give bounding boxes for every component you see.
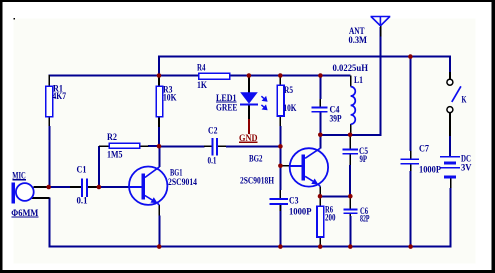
- svg-text:9P: 9P: [360, 154, 368, 164]
- svg-text:10K: 10K: [284, 103, 297, 113]
- svg-text:1000P: 1000P: [419, 164, 441, 174]
- svg-text:BG2: BG2: [249, 154, 263, 164]
- svg-text:C7: C7: [419, 144, 429, 154]
- svg-text:C3: C3: [289, 196, 299, 206]
- svg-text:C2: C2: [208, 126, 218, 136]
- svg-text:GREE: GREE: [216, 102, 238, 112]
- svg-text:10K: 10K: [163, 92, 177, 102]
- svg-text:L1: L1: [354, 75, 363, 85]
- svg-text:BG1: BG1: [170, 167, 183, 177]
- svg-text:0.1: 0.1: [77, 196, 88, 206]
- svg-text:2SC9014: 2SC9014: [168, 177, 197, 187]
- svg-text:0.0225uH: 0.0225uH: [333, 63, 369, 73]
- svg-text:GND: GND: [239, 133, 258, 143]
- svg-text:0.3M: 0.3M: [349, 35, 368, 45]
- svg-text:Φ6MM: Φ6MM: [11, 208, 38, 218]
- svg-text:4K7: 4K7: [53, 91, 67, 101]
- svg-text:1000P: 1000P: [289, 206, 312, 216]
- svg-text:39P: 39P: [330, 113, 342, 123]
- svg-text:C1: C1: [77, 164, 87, 174]
- svg-text:82P: 82P: [360, 214, 370, 224]
- svg-text:R4: R4: [197, 62, 206, 72]
- svg-text:R5: R5: [284, 85, 293, 95]
- svg-text:K: K: [462, 94, 467, 104]
- svg-text:R2: R2: [107, 132, 117, 142]
- svg-text:MIC: MIC: [12, 171, 25, 181]
- svg-text:0.1: 0.1: [208, 156, 217, 166]
- svg-text:1M5: 1M5: [107, 149, 123, 159]
- svg-text:2SC9018H: 2SC9018H: [240, 176, 274, 186]
- svg-text:200: 200: [325, 213, 336, 223]
- svg-text:1K: 1K: [197, 80, 207, 90]
- svg-text:3V: 3V: [461, 162, 472, 172]
